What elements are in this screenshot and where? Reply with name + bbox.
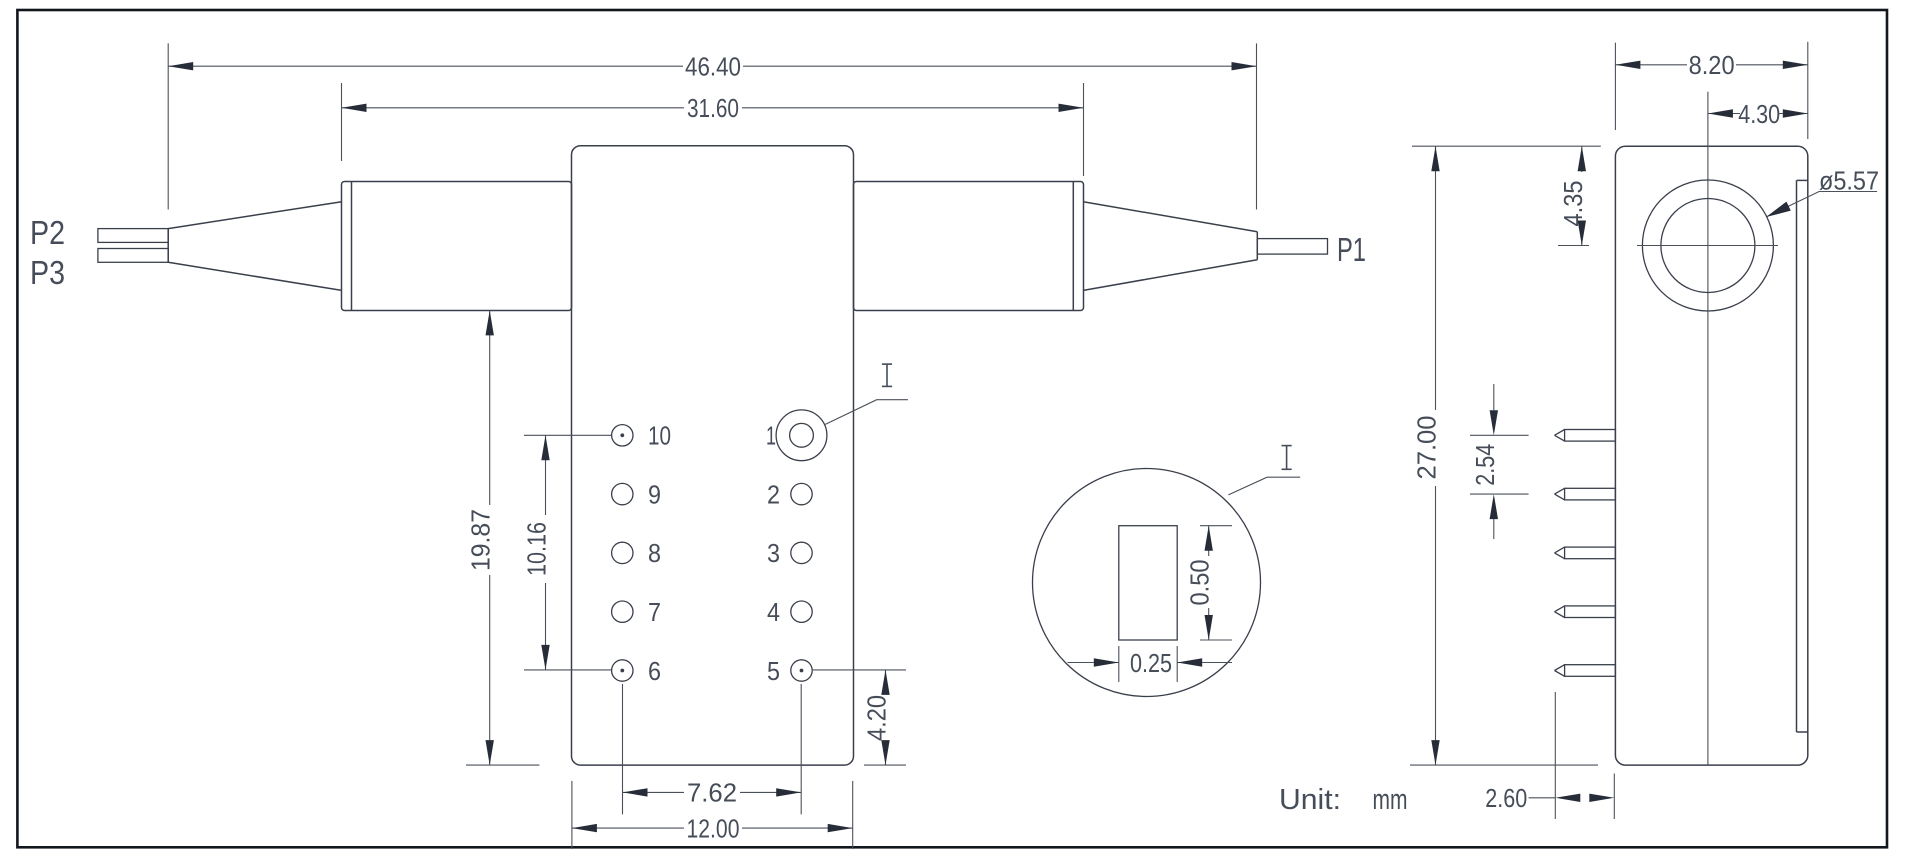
- side view: fiber port outer circle: [1642, 180, 1773, 311]
- dimension 4.35: [1558, 146, 1589, 245]
- svg-text:4: 4: [767, 597, 780, 627]
- side view: vertical centerline: [1707, 92, 1709, 765]
- svg-text:9: 9: [648, 479, 661, 509]
- label P3: [30, 254, 65, 291]
- svg-text:8.20: 8.20: [1689, 50, 1735, 80]
- dimension 7.62: [623, 684, 802, 814]
- front view: right taper cone: [1083, 202, 1257, 291]
- svg-text:0.25: 0.25: [1130, 648, 1172, 678]
- dimension 27.00: [1410, 146, 1601, 765]
- svg-text:4.20: 4.20: [862, 695, 892, 741]
- side view pin 5: [1555, 665, 1616, 677]
- dimension 12.00: [572, 781, 853, 849]
- side view pin 1: [1555, 430, 1616, 442]
- dimension 4.20: [813, 670, 906, 765]
- svg-text:1: 1: [766, 421, 776, 451]
- svg-text:ø5.57: ø5.57: [1819, 166, 1879, 196]
- side view: body: [1615, 146, 1807, 765]
- front view: P1 fiber: [1257, 239, 1327, 255]
- dimension 2.54: [1470, 384, 1529, 539]
- side view pin 4: [1555, 606, 1616, 618]
- svg-text:12.00: 12.00: [687, 813, 740, 843]
- svg-text:8: 8: [648, 538, 661, 568]
- svg-text:19.87: 19.87: [466, 509, 496, 571]
- detail label I (detail view): [1282, 446, 1292, 470]
- front view: P2 fiber: [98, 229, 168, 243]
- svg-text:2: 2: [767, 479, 780, 509]
- pin circle 5 (right column): [767, 656, 812, 686]
- svg-text:27.00: 27.00: [1412, 416, 1442, 480]
- front view: left taper cone: [168, 202, 342, 291]
- side view: circle horizontal centerline: [1637, 245, 1778, 247]
- front view: central switch body: [572, 146, 854, 765]
- svg-text:Unit:: Unit:: [1279, 784, 1341, 816]
- svg-text:3: 3: [767, 538, 780, 568]
- svg-text:5: 5: [767, 656, 780, 686]
- pin circle 4 (right column): [767, 597, 812, 627]
- svg-text:mm: mm: [1373, 784, 1408, 816]
- svg-text:2.60: 2.60: [1485, 783, 1527, 813]
- svg-text:46.40: 46.40: [685, 52, 741, 82]
- dimension 8.20: [1615, 42, 1807, 139]
- label P2: [30, 214, 65, 251]
- pin circle 10 (left column): [612, 421, 671, 451]
- front view: P3 fiber: [98, 249, 168, 263]
- svg-text:P1: P1: [1337, 231, 1366, 268]
- detail slot rectangle: [1119, 526, 1177, 640]
- svg-text:31.60: 31.60: [687, 93, 739, 123]
- svg-text:6: 6: [648, 656, 661, 686]
- dimension 0.25: [1068, 646, 1233, 682]
- leader line to detail I (front view): [825, 400, 908, 425]
- pin circle 2 (right column): [767, 479, 812, 509]
- svg-text:2.54: 2.54: [1470, 444, 1500, 486]
- svg-text:10.16: 10.16: [522, 522, 552, 576]
- detail label I (front view): [882, 364, 892, 386]
- detail circle I: [1033, 469, 1261, 697]
- front view: left collimator cylinder: [342, 182, 572, 311]
- dimension 31.60: [342, 83, 1084, 176]
- svg-text:0.50: 0.50: [1185, 560, 1215, 606]
- dimension 19.87: [466, 310, 540, 765]
- svg-text:10: 10: [648, 421, 671, 451]
- dimension 2.60: [1485, 692, 1614, 819]
- label Unit: mm: [1279, 784, 1408, 816]
- pin circle 3 (right column): [767, 538, 812, 568]
- front view: right collimator cylinder: [854, 182, 1084, 311]
- pin 1 concentric circles (detail I reference): [766, 410, 827, 461]
- pin circle 6 (left column): [612, 656, 661, 686]
- svg-text:7: 7: [648, 597, 661, 627]
- svg-text:P3: P3: [30, 254, 65, 291]
- dimension 10.16: [522, 435, 612, 670]
- side view: fiber port inner circle: [1661, 199, 1755, 293]
- pin circle 8 (left column): [612, 538, 661, 568]
- svg-text:4.35: 4.35: [1558, 181, 1588, 227]
- side view pin 3: [1555, 547, 1616, 559]
- pin circle 7 (left column): [612, 597, 661, 627]
- svg-text:4.30: 4.30: [1738, 99, 1780, 129]
- dimension 0.50: [1185, 526, 1232, 640]
- diameter label Ø5.57 with leader: [1766, 166, 1879, 218]
- label P1: [1337, 231, 1366, 268]
- svg-text:7.62: 7.62: [687, 778, 737, 808]
- leader line to detail label I (detail view): [1228, 477, 1300, 495]
- side view: front panel edge line: [1797, 180, 1808, 732]
- pin circle 9 (left column): [612, 479, 661, 509]
- dimension 46.40: [168, 43, 1256, 209]
- dimension 4.30: [1708, 99, 1808, 129]
- svg-text:P2: P2: [30, 214, 65, 251]
- side view pin 2: [1555, 488, 1616, 500]
